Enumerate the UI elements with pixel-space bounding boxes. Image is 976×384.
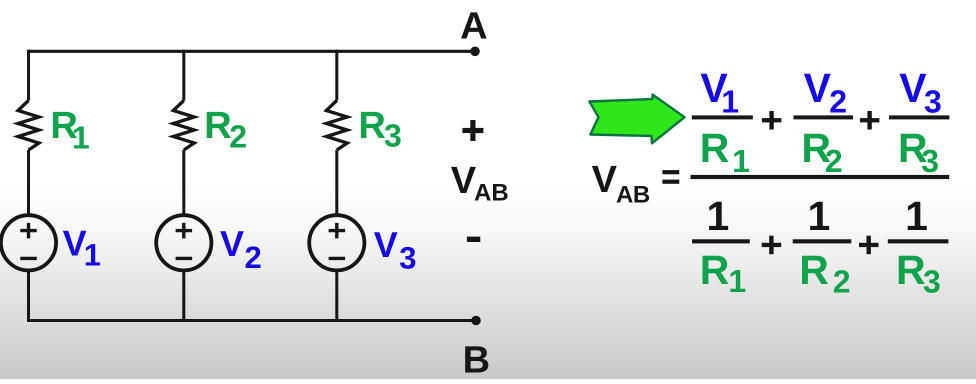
numerator term V1/R1 <box>700 65 739 119</box>
label VAB (circuit) <box>451 160 509 207</box>
svg-text:1: 1 <box>721 83 739 119</box>
svg-text:V: V <box>374 224 398 265</box>
denominator R2 <box>799 247 850 300</box>
voltage source V2 <box>156 215 211 270</box>
svg-text:2: 2 <box>829 83 847 119</box>
numerator R1 <box>700 125 750 179</box>
svg-text:B: B <box>463 340 490 379</box>
svg-text:R: R <box>358 105 385 147</box>
svg-text:AB: AB <box>474 179 509 206</box>
wire branch3 bottom <box>335 271 338 320</box>
svg-text:1: 1 <box>706 193 729 239</box>
svg-text:R: R <box>799 247 829 293</box>
svg-text:V: V <box>220 223 244 264</box>
wire branch3 middle <box>335 150 338 214</box>
plus (denominator 1) <box>762 236 782 255</box>
minus polarity mark (node B side) <box>467 237 480 242</box>
node B <box>463 316 490 382</box>
svg-text:R: R <box>700 247 730 293</box>
svg-text:R: R <box>896 247 926 293</box>
label VAB (formula LHS) <box>592 159 650 208</box>
svg-text:R: R <box>700 125 730 171</box>
fraction bar 1/R2 <box>793 239 852 243</box>
svg-text:1: 1 <box>732 143 750 179</box>
label R3 <box>358 105 401 154</box>
label V1 <box>63 222 101 272</box>
numerator term V3/R3 <box>899 65 942 119</box>
svg-text:V: V <box>804 65 832 111</box>
fraction bar V1/R1 <box>692 115 753 119</box>
resistor R3 <box>326 101 347 151</box>
svg-text:1: 1 <box>72 120 90 156</box>
label V3 <box>374 224 417 275</box>
svg-text:3: 3 <box>384 118 402 154</box>
label V2 <box>220 223 262 275</box>
svg-text:1: 1 <box>905 193 928 239</box>
svg-text:V: V <box>899 65 927 111</box>
wire top bus (node A rail) <box>27 50 475 53</box>
svg-text:2: 2 <box>825 143 843 179</box>
svg-text:V: V <box>451 160 477 202</box>
voltage source V3 <box>309 215 364 270</box>
svg-text:A: A <box>460 5 487 47</box>
wire bottom bus (node B rail) <box>27 319 476 322</box>
main fraction bar <box>691 175 950 179</box>
svg-text:1: 1 <box>807 193 830 239</box>
equals sign <box>662 170 679 184</box>
svg-text:2: 2 <box>245 240 262 275</box>
wire branch1 middle <box>27 150 30 214</box>
svg-text:V: V <box>592 159 618 201</box>
fraction bar V2/R2 <box>794 115 854 119</box>
plus (denominator 2) <box>859 236 879 255</box>
resistor R2 <box>173 101 194 151</box>
resistor R1 <box>18 101 39 151</box>
svg-text:R: R <box>204 105 231 147</box>
wire branch1 bottom <box>27 271 30 320</box>
wire branch3 top <box>335 50 338 101</box>
wire branch2 middle <box>182 150 185 214</box>
plus polarity mark (node A side) <box>462 120 483 141</box>
svg-text:3: 3 <box>924 83 942 119</box>
fraction bar V3/R3 <box>889 115 949 119</box>
wire branch1 top <box>27 50 30 101</box>
svg-text:AB: AB <box>616 181 650 208</box>
svg-text:1: 1 <box>728 263 746 299</box>
numerator term V2/R2 <box>804 65 847 119</box>
green arrow pointer <box>589 95 684 144</box>
svg-text:3: 3 <box>399 241 416 276</box>
svg-text:1: 1 <box>84 237 101 272</box>
label R1 <box>50 105 89 156</box>
fraction bar 1/R3 <box>888 239 949 243</box>
svg-text:2: 2 <box>833 264 851 300</box>
label R2 <box>204 105 247 155</box>
node A <box>460 5 487 56</box>
svg-text:3: 3 <box>921 143 939 179</box>
numerator R3 <box>898 125 939 179</box>
plus (numerator 1) <box>762 111 782 130</box>
plus (numerator 2) <box>860 111 880 130</box>
svg-text:2: 2 <box>229 119 247 155</box>
denominator R3 <box>896 247 941 300</box>
voltage source V1 <box>1 215 56 270</box>
numerator R2 <box>801 125 842 179</box>
svg-text:3: 3 <box>923 264 941 300</box>
wire branch2 bottom <box>182 271 185 320</box>
fraction bar 1/R1 <box>692 239 750 243</box>
wire branch2 top <box>182 50 185 101</box>
denominator R1 <box>700 247 746 299</box>
